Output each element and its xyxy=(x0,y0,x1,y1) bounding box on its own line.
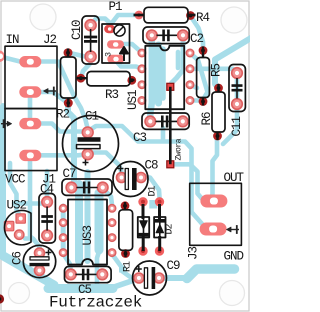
wire C3 area stub down xyxy=(161,128,166,140)
mounting hole top-right xyxy=(221,7,247,33)
wire C11 interior xyxy=(235,76,240,101)
connector J2 pad 2 xyxy=(19,86,41,97)
US3 pins left column xyxy=(59,205,67,257)
svg-text:C3: C3 xyxy=(133,131,147,145)
svg-text:IN: IN xyxy=(6,33,20,47)
connector J3 pad 1 (OUT) xyxy=(200,195,227,208)
C9 pad right xyxy=(154,273,164,283)
svg-text:C9: C9 xyxy=(167,259,181,273)
resistor R2 xyxy=(61,49,77,108)
wire US1 interior band c xyxy=(176,52,181,68)
wire J2 pin2 down to VCC pin1 xyxy=(28,95,33,120)
capacitor C6 (electrolytic) xyxy=(23,245,55,277)
resistor R4 xyxy=(134,7,196,23)
IC US3 outline xyxy=(68,200,107,265)
R3 pad right xyxy=(127,76,136,85)
wire left edge vertical xyxy=(0,106,6,257)
capacitor C8 (electrolytic) xyxy=(113,162,148,197)
US1 pins 5-8 right column xyxy=(186,49,194,104)
wire US3 left pads vertical band xyxy=(61,206,66,253)
edge pad left top xyxy=(0,51,5,63)
C8 pad right xyxy=(136,173,146,183)
C1 pad bottom xyxy=(82,149,93,160)
jumper wire Zwora xyxy=(169,87,172,165)
C4 pad top xyxy=(42,197,53,208)
wire R4 left pad to P1 pin1 xyxy=(111,15,136,24)
connector J2 outline xyxy=(5,46,57,108)
capacitor C9 (electrolytic) xyxy=(133,261,167,295)
C2 pad left xyxy=(147,30,158,41)
svg-text:C2: C2 xyxy=(190,32,204,46)
R1 pad bottom xyxy=(121,249,130,258)
wire C7 right to US3 pin8 xyxy=(103,189,112,206)
US1 pins 1-4 left column xyxy=(138,49,146,104)
C10 pad bottom xyxy=(85,51,96,62)
C7 pad left xyxy=(66,182,77,193)
resistor R5 xyxy=(197,47,210,106)
connector J1 outline xyxy=(5,109,57,171)
P1 pad 1 xyxy=(104,25,115,33)
C1 pad top xyxy=(82,127,93,138)
wire C10 bottom to R2 top xyxy=(72,54,85,57)
svg-text:US1: US1 xyxy=(126,90,140,110)
svg-text:R5: R5 xyxy=(210,63,224,77)
wire C10 top to P1 pin1 xyxy=(91,19,111,28)
wire J2 pin2 to R2 bottom xyxy=(36,92,65,101)
svg-text:J3: J3 xyxy=(187,246,201,260)
svg-text:Futrzaczek: Futrzaczek xyxy=(49,294,142,312)
wire US3 interior band a xyxy=(75,184,83,261)
wire diagonal ground band lower-left xyxy=(0,254,54,285)
svg-text:J2: J2 xyxy=(43,33,57,47)
wire C1 top pad to OUT pin2 xyxy=(88,126,211,229)
D2 pad top xyxy=(155,197,164,206)
wire C1 bottom pad to C8 left xyxy=(88,153,122,173)
capacitor C1 (electrolytic) xyxy=(63,116,119,172)
capacitor C2 xyxy=(143,27,189,44)
svg-text:D2: D2 xyxy=(165,223,176,234)
wire ground band horizontal xyxy=(48,284,113,293)
svg-text:C1: C1 xyxy=(85,110,99,124)
wire J1 pin down to C4 top xyxy=(45,171,50,198)
C3 pad right xyxy=(178,116,189,127)
P1 pad 3 xyxy=(107,55,124,63)
wire US1 interior band a xyxy=(155,45,162,103)
op-amp US1 outline xyxy=(145,46,184,109)
C6 pad top xyxy=(35,248,45,258)
capacitor C3 xyxy=(142,113,189,129)
mounting hole top-left xyxy=(30,4,56,30)
connector J1 pad 1 (VCC) xyxy=(19,118,41,129)
svg-text:US2: US2 xyxy=(7,199,27,213)
C2 pad right xyxy=(178,30,189,41)
capacitor C5 xyxy=(65,266,112,282)
transistor US2 xyxy=(4,210,31,244)
wire US1 pin5 to R5 bottom xyxy=(190,98,201,103)
wire P1 pin3 right to US1 pin2 xyxy=(117,62,142,69)
wire US2 top area to C4 xyxy=(14,201,44,206)
wire R4 right pad to R5 top xyxy=(191,16,204,47)
svg-text:P1: P1 xyxy=(109,0,123,14)
wire ground band rise to C9 left xyxy=(111,281,133,289)
wire US1 pin6 stub xyxy=(190,85,197,88)
D2 pad bottom xyxy=(155,246,164,255)
R3 pad left xyxy=(76,74,85,83)
capacitor C10 xyxy=(82,16,99,64)
wire US3 interior band b xyxy=(85,172,91,261)
resistor R6 xyxy=(212,84,225,140)
wire C11 bottom down joining R6 trace xyxy=(223,108,237,144)
wire VCC interior left down jog to US2 top xyxy=(10,163,21,216)
D1 pad top xyxy=(138,197,147,206)
R5 pad top xyxy=(199,46,208,55)
via square between D1 and D2 xyxy=(149,200,157,209)
wire C9 right to GND junction xyxy=(163,275,189,281)
svg-text:US3: US3 xyxy=(81,225,95,245)
R4 pad left xyxy=(135,11,144,20)
edge pad left bottom xyxy=(0,294,4,303)
svg-text:GND: GND xyxy=(224,250,244,264)
wire C2 right pad down into US1 xyxy=(172,41,184,83)
diode D2 xyxy=(154,204,165,251)
resistor R1 xyxy=(119,202,133,257)
wire US2 bottom to C6 top xyxy=(25,239,40,251)
wire C10 bottom to R3 left xyxy=(82,57,91,76)
wire US3 area down across C5 xyxy=(97,250,100,285)
C5 pad left xyxy=(66,269,77,280)
connector J1 pad 2 xyxy=(19,150,41,161)
R6 pad top xyxy=(214,84,223,93)
wire US1 interior band b xyxy=(160,49,166,98)
J1 pin1 marker xyxy=(1,119,12,128)
svg-text:R3: R3 xyxy=(105,88,119,102)
D1 pad bottom xyxy=(138,246,147,255)
wire VCC pin1 to C1 top pad xyxy=(36,124,82,132)
wire R6 bottom to OUT pin1 xyxy=(207,139,217,199)
wire VCC pin2 down to US2 bottom area xyxy=(30,160,34,240)
C6 pad bottom xyxy=(35,266,45,276)
svg-text:R1: R1 xyxy=(123,261,134,272)
C4 pad bottom xyxy=(42,230,53,241)
connector J2 pad 1 xyxy=(19,56,41,67)
US2 pad 2 left xyxy=(4,221,13,230)
C9 pad left xyxy=(134,273,144,283)
svg-text:C10: C10 xyxy=(70,20,84,40)
wire J2 pin1 through R2 body to C1 top xyxy=(36,62,87,127)
svg-text:C11: C11 xyxy=(230,116,244,136)
connector J3 pad 2 xyxy=(200,223,227,236)
capacitor C4 xyxy=(39,194,55,244)
R2 pad bottom xyxy=(64,99,73,108)
C7 pad right xyxy=(97,182,108,193)
mounting hole bottom-right xyxy=(220,281,245,306)
C8 pad left xyxy=(117,173,127,183)
via square right of C5 xyxy=(119,266,126,273)
P1 pad 2 xyxy=(107,40,124,48)
R5 pad bottom xyxy=(199,97,208,106)
jumper pad bottom xyxy=(167,161,174,168)
svg-text:OUT: OUT xyxy=(224,171,245,185)
wire edge pad to J2 pin1 xyxy=(2,57,28,62)
connector J3 outline xyxy=(190,183,242,245)
capacitor C11 xyxy=(229,65,245,112)
potentiometer P1 xyxy=(102,24,130,63)
svg-text:C6: C6 xyxy=(11,251,25,265)
svg-text:Zwora: Zwora xyxy=(175,138,184,160)
R4 pad right xyxy=(186,11,195,20)
US3 pins right column xyxy=(108,205,116,257)
R1 pad top xyxy=(121,201,130,210)
R2 pad top xyxy=(64,48,73,57)
wire US1 pin8 through R5 to R5 bottom xyxy=(190,53,208,98)
wire jumper bottom pad to OUT pin1 xyxy=(172,164,208,200)
diode D1 xyxy=(138,204,149,251)
US2 pad 3 bottom xyxy=(15,230,24,239)
svg-text:R4: R4 xyxy=(196,11,210,25)
wire VCC pin2 to C1 bottom pad xyxy=(36,152,85,157)
C10 pad top xyxy=(85,20,96,31)
capacitor C7 xyxy=(62,179,112,195)
wire US1 pin7 to C11 top xyxy=(190,69,236,73)
svg-text:C4: C4 xyxy=(40,183,54,197)
wire US3 pin4 to C5 left xyxy=(63,254,71,271)
wire C2 left pad down into US1 xyxy=(150,40,152,119)
wire P1 pin2 to US1 pin1 xyxy=(120,44,140,51)
C5 pad right xyxy=(97,269,108,280)
wire US3 pin5 diagonal to via square xyxy=(112,254,122,267)
svg-text:D1: D1 xyxy=(148,185,159,196)
wire R2 bottom down through C1 to C7 left xyxy=(68,103,79,260)
wire top-right edge band to R6 top xyxy=(215,38,251,87)
wire GND band under OUT box xyxy=(187,269,235,279)
wire via square to C9 left xyxy=(122,271,133,279)
wire US2 left pad to edge xyxy=(3,224,8,229)
jumper pad top xyxy=(167,83,174,90)
C3 pad left xyxy=(145,116,156,127)
R6 pad bottom xyxy=(213,132,222,141)
C11 pad bottom xyxy=(232,99,243,110)
mounting hole bottom-left xyxy=(9,283,30,304)
svg-text:C7: C7 xyxy=(63,167,77,181)
J2 pin1 marker xyxy=(44,87,56,96)
resistor R3 xyxy=(77,72,135,86)
svg-text:VCC: VCC xyxy=(5,173,25,187)
C11 pad top xyxy=(232,68,243,79)
wire US3 interior band c xyxy=(95,193,104,250)
svg-text:R2: R2 xyxy=(56,108,70,122)
svg-text:R6: R6 xyxy=(200,112,214,126)
J3 pin1 marker xyxy=(227,225,239,234)
wire C8 right to D2 top xyxy=(141,178,160,198)
svg-text:C8: C8 xyxy=(145,159,159,173)
US2 pad 1 top xyxy=(16,214,25,223)
